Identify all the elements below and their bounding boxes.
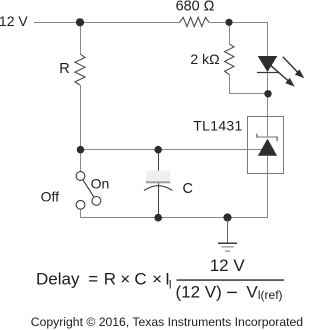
svg-text:Copyright © 2016, Texas Instru: Copyright © 2016, Texas Instruments Inco… bbox=[31, 315, 303, 329]
svg-text:Off: Off bbox=[41, 188, 60, 204]
svg-text:12 V: 12 V bbox=[0, 13, 28, 29]
svg-text:V: V bbox=[246, 283, 258, 302]
svg-text:×: × bbox=[152, 269, 162, 288]
svg-text:Delay: Delay bbox=[36, 269, 80, 288]
svg-text:TL1431: TL1431 bbox=[193, 117, 242, 133]
svg-text:=: = bbox=[88, 269, 98, 288]
svg-text:l: l bbox=[169, 278, 172, 292]
svg-text:(12 V): (12 V) bbox=[176, 283, 222, 302]
svg-text:l(ref): l(ref) bbox=[258, 288, 283, 302]
svg-text:R: R bbox=[59, 61, 69, 77]
svg-text:680 Ω: 680 Ω bbox=[176, 0, 215, 15]
svg-text:R: R bbox=[104, 269, 116, 288]
svg-text:×: × bbox=[120, 269, 130, 288]
svg-text:C: C bbox=[134, 269, 146, 288]
svg-text:2 kΩ: 2 kΩ bbox=[190, 51, 219, 67]
svg-text:On: On bbox=[91, 175, 110, 191]
svg-text:12 V: 12 V bbox=[210, 256, 246, 275]
svg-text:C: C bbox=[183, 181, 193, 197]
